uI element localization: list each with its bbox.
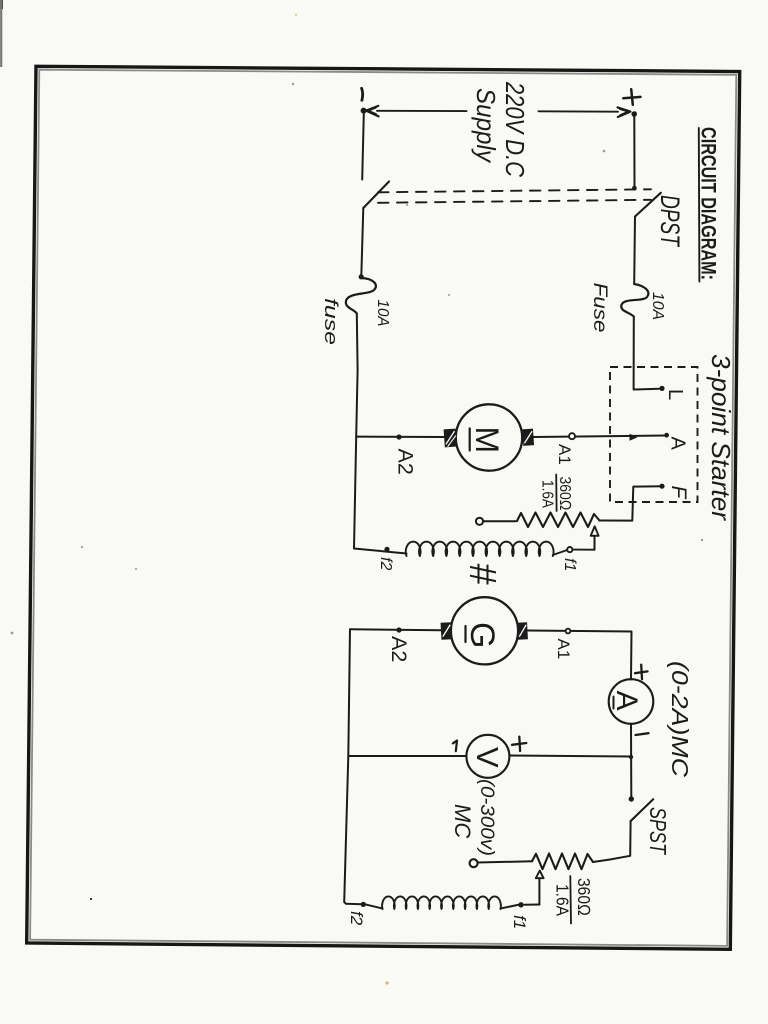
svg-text:DPST: DPST — [655, 195, 685, 248]
arrowhead on A wire — [630, 434, 638, 441]
fuse F2 right 10A — [621, 284, 648, 317]
RH2 wiper arrow — [536, 871, 544, 905]
wire f2 lead from left bus — [354, 549, 407, 554]
fuse F1 left 10A — [346, 274, 376, 313]
svg-text:Fuse: Fuse — [589, 283, 610, 333]
svg-text:220V D.C: 220V D.C — [500, 81, 530, 177]
wire left bus vertical — [354, 314, 358, 549]
wire generator A1 lead — [528, 631, 632, 680]
svg-text:f1: f1 — [510, 915, 529, 929]
supply plus terminal — [618, 89, 641, 117]
wire minus lead down — [362, 114, 364, 180]
wire plus lead down — [633, 117, 635, 188]
rheostat RH2 open terminal — [470, 859, 478, 867]
voltmeter plus sign — [512, 737, 526, 751]
svg-text:f1: f1 — [561, 558, 578, 571]
svg-text:F: F — [667, 486, 690, 500]
wire DPST left to fuse — [361, 208, 363, 277]
page border inner frame — [30, 70, 736, 946]
voltmeter tick 1 — [453, 741, 457, 752]
heading CIRCUIT DIAGRAM: — [697, 127, 721, 282]
svg-text:G: G — [463, 622, 501, 648]
node f2 generator field — [361, 902, 366, 907]
wire f1 to coil — [501, 905, 519, 909]
label RH1 value 360ohm/1.6A — [539, 475, 574, 512]
svg-text:(0-2A)MC: (0-2A)MC — [667, 661, 693, 777]
voltmeter circle — [466, 735, 509, 778]
generator right brush — [517, 622, 528, 640]
node DPST right pivot — [632, 186, 637, 191]
node voltmeter junction — [629, 755, 633, 759]
svg-text:10A: 10A — [374, 300, 391, 327]
svg-text:A2: A2 — [394, 449, 418, 475]
wire DPST right to fuse — [633, 217, 636, 284]
ammeter minus sign — [636, 733, 649, 735]
node f1 generator field — [518, 902, 523, 907]
terminal A1 circle generator — [566, 629, 571, 634]
node f1 motor field — [567, 547, 572, 552]
label RH2 value 360ohm/1.6A — [553, 876, 595, 924]
terminal F — [659, 484, 664, 489]
scan edge artifact top-left — [0, 0, 3, 67]
svg-text:1.6A: 1.6A — [539, 480, 556, 508]
svg-text:f2: f2 — [347, 911, 366, 926]
svg-text:360Ω: 360Ω — [574, 878, 594, 916]
RH1 wiper arrow — [591, 526, 599, 549]
svg-text:M: M — [469, 427, 505, 454]
motor M underline — [469, 429, 471, 451]
wire f1 to wiper stem — [572, 549, 594, 551]
node SPST top — [629, 796, 634, 801]
svg-text:MC: MC — [450, 804, 475, 838]
wire ammeter to SPST — [630, 724, 632, 796]
wire RH1 terminal to zigzag — [483, 520, 516, 522]
motor right brush — [522, 429, 534, 446]
terminal L — [659, 386, 664, 391]
wire voltmeter left lead — [348, 755, 466, 757]
svg-text:SPST: SPST — [645, 807, 671, 856]
3-point starter dashed box — [610, 367, 698, 502]
wire motor A2 lead — [356, 436, 444, 438]
svg-text:A2: A2 — [387, 636, 411, 662]
generator left brush — [441, 622, 452, 640]
svg-text:10A: 10A — [649, 292, 666, 320]
inductor motor field coil — [406, 542, 554, 556]
svg-text:(0-300v): (0-300v) — [476, 779, 497, 856]
svg-text:3-point Starter: 3-point Starter — [706, 354, 736, 521]
supply minus terminal — [361, 88, 379, 116]
svg-text:1.6A: 1.6A — [553, 884, 573, 916]
motor M armature circle — [456, 404, 522, 470]
SPST blade — [631, 799, 654, 821]
wire SPST to corner — [593, 821, 631, 862]
generator G underline — [464, 626, 466, 642]
svg-text:V: V — [470, 747, 505, 768]
wire supply horizontal lead — [377, 110, 467, 112]
svg-text:A1: A1 — [554, 639, 573, 660]
resistor RH2 zigzag 360 ohm — [532, 854, 593, 870]
paper specks — [11, 83, 704, 635]
wire generator A2 lead — [344, 629, 362, 904]
wire voltmeter right lead — [509, 756, 631, 757]
motor left brush — [444, 429, 457, 448]
node f2 motor field — [384, 547, 389, 552]
wire coil to f1 node — [553, 550, 567, 555]
svg-text:360Ω: 360Ω — [556, 477, 573, 511]
terminal A — [664, 433, 669, 438]
svg-text:A: A — [667, 437, 689, 451]
DPST left blade — [363, 182, 389, 209]
generator G armature circle — [451, 597, 518, 664]
node motor A2 — [396, 434, 401, 439]
ammeter circle — [609, 679, 654, 724]
node generator A2 — [396, 627, 401, 632]
terminal A1 circle motor — [569, 433, 575, 439]
wire bus end to coil — [366, 904, 383, 908]
svg-text:L: L — [664, 389, 686, 400]
resistor RH1 zigzag 360 ohm — [517, 513, 600, 528]
wire RH1 wiper to F vertical — [600, 486, 663, 520]
svg-text:A: A — [610, 691, 643, 711]
svg-text:fuse: fuse — [321, 298, 341, 345]
rheostat RH1 open terminal — [476, 518, 483, 525]
svg-text:A1: A1 — [555, 444, 574, 465]
wire right fuse to starter L — [634, 317, 660, 390]
ammeter A underline — [613, 697, 615, 709]
svg-text:Supply: Supply — [471, 88, 501, 164]
wire motor A1 lead to starter A — [534, 436, 667, 438]
svg-text:#: # — [461, 563, 503, 585]
wire wiper stem to f1 gen — [525, 904, 540, 906]
inductor generator field coil — [382, 896, 501, 909]
DPST right blade — [635, 193, 661, 217]
DPST mechanical link dashed lines — [378, 189, 651, 203]
svg-text:f2: f2 — [377, 557, 394, 570]
ammeter plus sign — [635, 665, 648, 680]
wire supply horizontal lead right part — [539, 110, 619, 112]
wire RH2 to open terminal — [478, 861, 533, 862]
